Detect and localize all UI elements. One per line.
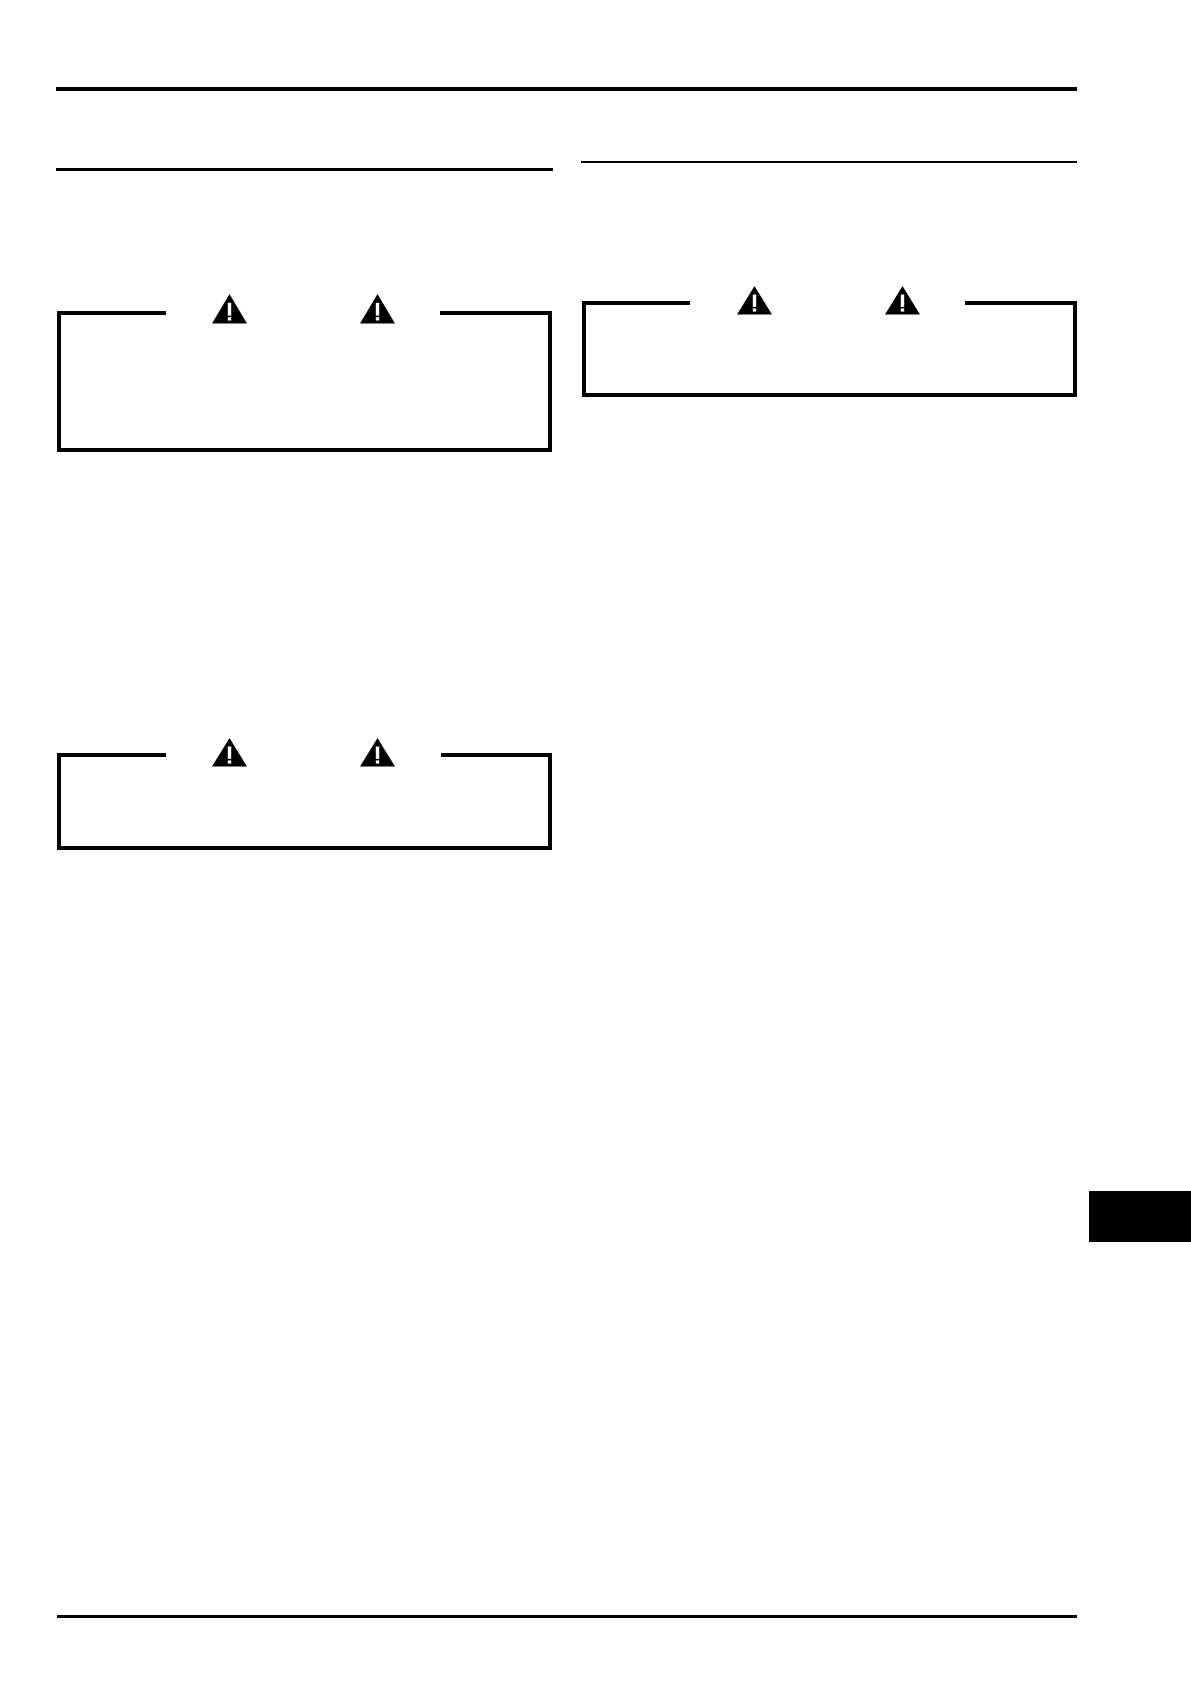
warning box 2 right border <box>1073 301 1077 397</box>
warning box 2 triangle B <box>885 286 920 315</box>
left column heading underline <box>56 168 553 171</box>
warning box 3 top border right segment <box>441 753 552 757</box>
warning box 3 triangle B <box>360 738 395 767</box>
bottom rule <box>57 1615 1077 1618</box>
warning box 1 bottom border <box>57 448 552 452</box>
black thumb tab on right page edge <box>1089 1191 1191 1242</box>
warning box 3 right border <box>548 753 552 850</box>
warning box 1 triangle A <box>212 294 247 324</box>
warning box 1 top border left segment <box>57 311 166 315</box>
warning box 2 triangle A <box>737 286 772 315</box>
warning box 3 top border left segment <box>57 753 166 757</box>
top rule <box>56 87 1077 91</box>
warning box 1 top border right segment <box>440 311 552 315</box>
warning box 2 top border left segment <box>582 301 690 305</box>
warning box 2 (right column) left border <box>582 301 586 397</box>
warning box 2 bottom border <box>582 393 1077 397</box>
warning box 3 (left column lower) left border <box>57 753 61 850</box>
warning box 3 bottom border <box>57 846 552 850</box>
warning box 1 right border <box>548 311 552 452</box>
warning box 2 top border right segment <box>965 301 1077 305</box>
right column heading underline <box>581 161 1077 164</box>
warning box 1 left border <box>57 311 61 452</box>
warning box 1 triangle B <box>360 294 395 324</box>
warning box 3 triangle A <box>212 738 247 767</box>
